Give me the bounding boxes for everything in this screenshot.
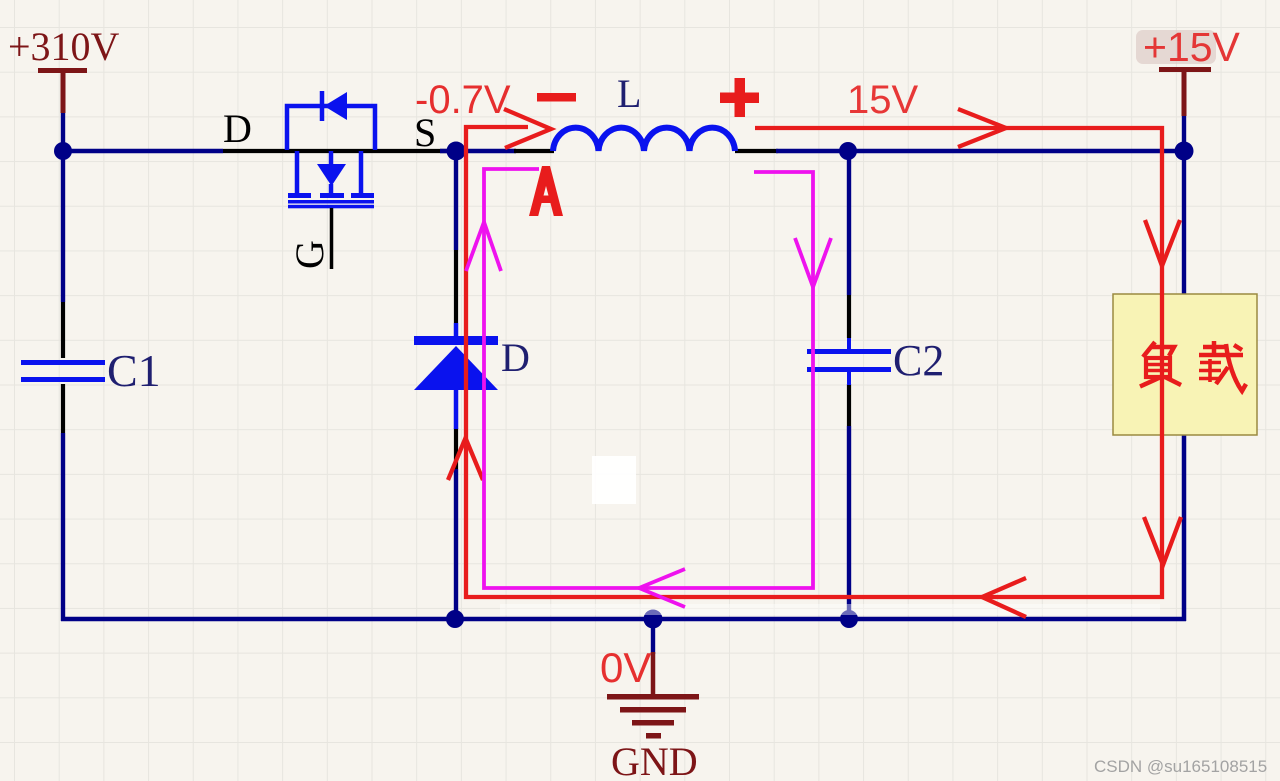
power +310V symbol [8,24,120,113]
wire C2 to bottom rail [847,426,851,619]
diode D (freewheeling) [414,323,530,429]
ground symbol GND [607,652,699,781]
svg-text:15V: 15V [847,78,918,122]
wire +310V stem to C1 [61,112,65,302]
white patch band [500,604,1160,615]
wire S node down to diode [454,151,458,250]
transistor Q1 (MOSFET with body diode) [287,91,375,269]
current path red loop [448,109,1181,617]
node C2 bottom junction [840,610,858,628]
label plus [720,78,759,117]
node +15V/load junction [1175,142,1194,161]
wire inductor to +15V node [776,149,1184,153]
wire diode to bottom rail [454,469,458,619]
wire L pin 2 black segment [735,149,778,153]
white patch center [592,456,636,504]
svg-text:D: D [223,106,252,151]
label 负载 (load) hand-drawn [1140,341,1246,391]
svg-text:D: D [501,335,530,380]
wire C1 to bottom rail [61,433,65,621]
load box 负载 [1113,294,1257,435]
svg-text:+310V: +310V [8,24,120,69]
wire C1 pin 2 black segment [61,384,65,433]
power +15V symbol [1136,24,1241,116]
wire load bottom to bottom rail [1182,435,1187,621]
label minus [537,93,576,102]
svg-text:0V: 0V [600,644,651,691]
wire S node to inductor [440,149,516,153]
current path magenta loop [466,169,831,607]
node S/diode junction [447,142,466,161]
svg-text:GND: GND [611,739,698,781]
inductor L [553,71,735,151]
capacitor C1 [21,345,161,396]
node diode bottom junction [446,610,464,628]
svg-text:C1: C1 [107,345,161,396]
wire L pin 1 black segment [514,149,554,153]
wire diode cathode pin black segment [454,250,458,323]
svg-text:C2: C2 [893,336,944,385]
node +310V/C1/D junction [54,142,72,160]
wire L/C2 node down to C2 [847,151,851,295]
node GND junction [644,610,663,629]
wire C2 pin 2 black segment [847,384,851,426]
wire +15V node to load top [1182,115,1186,295]
node L/C2 junction [839,142,857,160]
label A [529,166,563,216]
wire C2 pin 1 black segment [847,295,851,338]
wire diode anode pin black segment [454,428,458,469]
capacitor C2 [807,336,944,385]
wire GND stub [651,619,655,654]
svg-text:L: L [617,71,641,116]
wire C1 pin 1 black segment [61,302,65,358]
svg-text:+15V: +15V [1143,24,1241,70]
svg-text:CSDN @su165108515: CSDN @su165108515 [1094,757,1267,776]
wire bottom rail [61,617,1186,622]
svg-text:G: G [287,240,332,269]
wire D pin black segment through Q1 [223,149,447,153]
svg-text:-0.7V: -0.7V [415,78,511,122]
wire +310V node to D pin [63,149,223,153]
